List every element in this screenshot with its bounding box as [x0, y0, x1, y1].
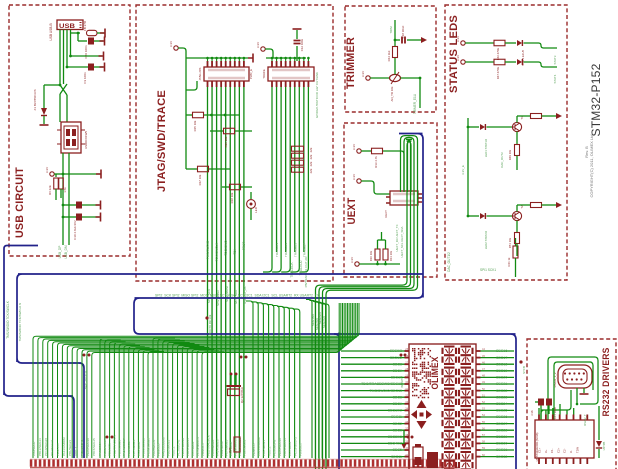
- svg-text:TRIM: TRIM: [389, 26, 393, 34]
- svg-text:SEG9: SEG9: [393, 369, 402, 373]
- wire led1: [465, 42, 494, 44]
- svg-text:USBDF01W5: USBDF01W5: [84, 131, 88, 149]
- svg-text:R17 10k: R17 10k: [198, 174, 202, 185]
- wire jtag top rail: [186, 57, 248, 59]
- svg-text:SEG0/2: SEG0/2: [390, 349, 402, 353]
- svg-text:SEG11: SEG11: [391, 415, 402, 419]
- wires uext bundle: [326, 136, 418, 469]
- svg-text:FB 27R: FB 27R: [83, 20, 87, 31]
- svg-text:USB CIRCUIT: USB CIRCUIT: [14, 167, 26, 238]
- svg-text:TMS/SWDIO/SEG13: TMS/SWDIO/SEG13: [370, 389, 403, 393]
- bus navy horizontal upper: [17, 274, 423, 458]
- svg-text:LED2 STAT2/2: LED2 STAT2/2: [484, 230, 488, 249]
- wire jtag pwr: [178, 48, 186, 110]
- wire jtag pwr down: [185, 110, 187, 169]
- capacitor C10: [63, 204, 76, 206]
- svg-text:SPI2_SCK SPI2_MISO SPI2_MOSI: SPI2_SCK SPI2_MISO SPI2_MOSI NSS2 SCT MI…: [155, 294, 320, 298]
- resistor R11: [385, 261, 387, 264]
- svg-text:R47 470E: R47 470E: [496, 67, 500, 80]
- svg-text:PE10/SEG39: PE10/SEG39: [278, 438, 282, 456]
- capacitor C12 top right: [296, 46, 298, 61]
- svg-text:SEG22: SEG22: [496, 389, 507, 393]
- connector UEXT body: [390, 191, 418, 205]
- resistor R49: [515, 145, 520, 156]
- svg-text:BOOT0 R9 10k: BOOT0 R9 10k: [208, 314, 212, 335]
- wires db9 loop3: [541, 390, 571, 420]
- wire trim: [370, 77, 389, 79]
- wire to led1: [505, 42, 516, 44]
- wire USB id: [66, 30, 68, 68]
- svg-text:R49 10k: R49 10k: [508, 149, 512, 160]
- svg-text:STAT4: STAT4: [553, 74, 557, 83]
- svg-text:DAC_OUT1/2: DAC_OUT1/2: [84, 370, 88, 389]
- wire trim right: [401, 77, 421, 79]
- svg-text:PE2/TRACECK: PE2/TRACECK: [113, 435, 117, 456]
- junction pair D: [106, 436, 109, 439]
- svg-text:PB6/I2C1: PB6/I2C1: [299, 443, 303, 456]
- svg-text:C3 100n: C3 100n: [83, 72, 87, 84]
- svg-text:TMS/SWDIO TCK/SWCLK N: TMS/SWDIO TCK/SWCLK N: [18, 303, 22, 342]
- svg-text:SPI1 SCK1: SPI1 SCK1: [480, 268, 496, 272]
- wires trace down: [263, 87, 272, 272]
- svg-text:T2IN: T2IN: [575, 447, 579, 453]
- svg-text:RS232_T: RS232_T: [583, 414, 587, 426]
- svg-text:R11 10k: R11 10k: [389, 250, 393, 261]
- led rs232: [596, 441, 602, 447]
- svg-text:PC13/WKUP2: PC13/WKUP2: [293, 437, 297, 456]
- svg-text:SEG30/2: SEG30/2: [388, 435, 402, 439]
- svg-text:TRACED3: TRACED3: [284, 243, 288, 257]
- svg-text:PB/TRACED1 OUT AN: PB/TRACED1 OUT AN: [304, 257, 308, 288]
- ferrite FB1: [87, 30, 98, 35]
- svg-text:V+: V+: [544, 449, 548, 453]
- resistor R48: [531, 114, 542, 119]
- resistor R16: [224, 128, 235, 134]
- resistor R17: [198, 166, 209, 172]
- ic U2 USBDF01W5: [61, 122, 81, 153]
- svg-text:R15 10k: R15 10k: [193, 120, 197, 131]
- svg-text:PB9/SEG9: PB9/SEG9: [127, 441, 131, 456]
- svg-text:TCK/SWCLK: TCK/SWCLK: [215, 242, 219, 261]
- wire D+ down: [59, 94, 61, 122]
- terminal 3.3V led1: [461, 41, 465, 45]
- wire cap branch: [77, 33, 79, 41]
- ground: [100, 63, 105, 72]
- svg-text:STM32-P152: STM32-P152: [591, 64, 603, 137]
- svg-text:UEXT: UEXT: [346, 197, 358, 224]
- wire emitter1: [516, 132, 518, 145]
- svg-text:STAT3: STAT3: [553, 55, 557, 64]
- terminal 3.3V trim: [366, 76, 370, 80]
- svg-text:PA14/SEG17: PA14/SEG17: [215, 438, 219, 456]
- svg-text:3.3V: 3.3V: [361, 71, 365, 77]
- svg-text:PB6/I2C1: PB6/I2C1: [108, 443, 112, 456]
- wire U2 down D-: [68, 153, 70, 245]
- svg-text:SEG23: SEG23: [496, 395, 507, 399]
- connector DB9: [558, 365, 592, 388]
- frame TRIMMER: [345, 6, 436, 112]
- wire to led2: [505, 61, 516, 63]
- mcu pin band: [30, 460, 33, 467]
- svg-text:1.5k: 1.5k: [63, 187, 67, 193]
- ground rs232: [583, 388, 585, 393]
- svg-text:SEG40/2: SEG40/2: [388, 442, 402, 446]
- svg-text:STATUS LEDS: STATUS LEDS: [448, 15, 460, 93]
- svg-text:Q2 32768Hz: Q2 32768Hz: [240, 386, 244, 403]
- svg-text:TRACED1: TRACED1: [275, 243, 279, 257]
- svg-text:PB15/SEG15: PB15/SEG15: [186, 438, 190, 456]
- ground jtag rail: [248, 54, 253, 63]
- svg-text:SEG5: SEG5: [393, 448, 402, 452]
- svg-text:C16: C16: [530, 410, 534, 415]
- terminal 3.3V uext3: [355, 262, 359, 266]
- svg-text:PE10/SEG39: PE10/SEG39: [86, 438, 90, 456]
- svg-text:TRIMER_E1U: TRIMER_E1U: [413, 93, 417, 114]
- svg-text:PD2/SEG31: PD2/SEG31: [50, 439, 54, 456]
- svg-text:AN_TR 10k: AN_TR 10k: [390, 86, 394, 101]
- svg-text:USB USB-B: USB USB-B: [49, 23, 53, 40]
- capacitor C11: [63, 216, 76, 218]
- wire led2 out: [524, 62, 558, 67]
- transistor T2: [512, 211, 521, 220]
- wire to base2: [487, 215, 513, 217]
- svg-text:SEG8: SEG8: [393, 362, 402, 366]
- arrow out1: [556, 113, 562, 119]
- lcd bar symbol: [427, 452, 438, 468]
- wire trim down: [419, 78, 421, 108]
- svg-text:R13 4.7k: R13 4.7k: [374, 156, 378, 168]
- svg-text:22E: 22E: [309, 161, 313, 166]
- svg-text:3.3V: 3.3V: [256, 42, 260, 48]
- svg-text:JTAG/SWD/TRACE: JTAG/SWD/TRACE: [156, 90, 168, 192]
- svg-text:PB15/SEG15: PB15/SEG15: [283, 438, 287, 456]
- connector TRACE pins bottom: [271, 81, 273, 87]
- junction pair B: [240, 356, 243, 359]
- svg-text:PE8/LCD: PE8/LCD: [56, 443, 60, 456]
- wire collector1: [516, 116, 518, 123]
- resistor R51: [515, 233, 520, 244]
- wire jtag2 pwr: [265, 49, 273, 58]
- svg-text:PA7/SEG4: PA7/SEG4: [191, 441, 195, 456]
- terminal 3.3V jtag2: [261, 47, 265, 51]
- svg-text:3.3V_E: 3.3V_E: [461, 165, 465, 175]
- svg-text:PC7/SEG25: PC7/SEG25: [132, 439, 136, 456]
- wire R down: [55, 189, 57, 200]
- capacitor C3: [67, 66, 88, 68]
- connector TRACE body: [268, 67, 314, 81]
- capacitor C16: [535, 401, 538, 403]
- svg-text:PB1/SEG21: PB1/SEG21: [262, 439, 266, 456]
- svg-text:C2+: C2+: [556, 447, 560, 453]
- wire emitter2: [516, 221, 518, 233]
- connector USB: [57, 20, 83, 30]
- svg-text:USB_DM: USB_DM: [64, 245, 68, 259]
- ground: [96, 213, 101, 222]
- resistor R18: [230, 184, 241, 190]
- wire cap branch: [395, 39, 400, 41]
- svg-text:DAC_OUT1/2: DAC_OUT1/2: [447, 252, 451, 272]
- resistor R10: [377, 261, 379, 264]
- svg-text:SEG24: SEG24: [496, 402, 507, 406]
- svg-text:3.3V: 3.3V: [169, 41, 173, 47]
- wire D- down: [66, 95, 68, 122]
- resistor R6 22E: [55, 174, 57, 177]
- ground: [100, 37, 105, 46]
- svg-text:22E: 22E: [309, 147, 313, 152]
- capacitor C17: [546, 399, 552, 406]
- svg-text:R44 3k3: R44 3k3: [387, 50, 391, 61]
- junction pair E: [407, 436, 410, 439]
- svg-text:PD2/SEG31: PD2/SEG31: [152, 439, 156, 456]
- svg-text:3.3V: 3.3V: [456, 55, 460, 61]
- ic pins bottom: [538, 458, 540, 464]
- led STAT1: [468, 126, 479, 128]
- wire led2: [465, 61, 494, 63]
- svg-text:R21 1k: R21 1k: [507, 257, 511, 266]
- svg-text:PA11/USBDM: PA11/USBDM: [162, 437, 166, 456]
- resistor R44: [393, 47, 398, 58]
- svg-text:Z1 BZX55C3V6: Z1 BZX55C3V6: [33, 89, 37, 110]
- junction boot0: [205, 316, 208, 319]
- ground: [96, 170, 101, 179]
- led STAT2: [468, 215, 479, 217]
- svg-text:PB13/SEG13: PB13/SEG13: [38, 438, 42, 456]
- svg-text:USB_DP: USB_DP: [58, 246, 62, 259]
- lcd battery: [413, 447, 423, 467]
- svg-text:R16 10k: R16 10k: [224, 136, 228, 147]
- resistor R21 buzzer: [515, 238, 517, 246]
- lcd dither logo: [412, 348, 414, 350]
- svg-text:SEG27: SEG27: [496, 422, 507, 426]
- ic pins top: [538, 415, 540, 421]
- svg-text:3.3V: 3.3V: [456, 36, 460, 42]
- wire uext r13: [361, 150, 371, 152]
- svg-text:PB1/SEG21: PB1/SEG21: [167, 439, 171, 456]
- svg-text:PB1/SEG21: PB1/SEG21: [68, 439, 72, 456]
- svg-text:R10 10k: R10 10k: [369, 250, 373, 261]
- resistor pack R19-R22: [292, 146, 304, 151]
- svg-text:UEXT_SCL UEXT_SDA: UEXT_SCL UEXT_SDA: [400, 226, 404, 257]
- svg-text:PC10/SEG28: PC10/SEG28: [146, 438, 150, 456]
- svg-text:SEG1/2: SEG1/2: [390, 356, 402, 360]
- wire trim up: [394, 58, 396, 74]
- svg-text:PE8/LCD: PE8/LCD: [252, 443, 256, 456]
- wire USB D-: [63, 30, 65, 85]
- svg-text:SEG9: SEG9: [393, 402, 402, 406]
- junction pair A: [83, 354, 86, 357]
- wire pullup row: [63, 173, 100, 175]
- wire jtag left pin: [186, 81, 197, 90]
- bus navy uext loop: [134, 134, 516, 469]
- svg-text:C10 4.7uF/16V: C10 4.7uF/16V: [73, 220, 77, 240]
- svg-text:TRACED7: TRACED7: [302, 243, 306, 257]
- svg-text:STFB: STFB: [522, 366, 526, 374]
- svg-text:PD2/SEG31: PD2/SEG31: [243, 439, 247, 456]
- wire USB D+: [59, 30, 61, 86]
- capacitor C20: [88, 38, 94, 45]
- diode Z1: [41, 108, 47, 115]
- svg-text:PD8/SEG28: PD8/SEG28: [117, 439, 121, 456]
- bus navy lcd branch: [334, 334, 339, 469]
- svg-text:PE10/SEG39: PE10/SEG39: [181, 438, 185, 456]
- lcd pins left: [405, 350, 410, 352]
- svg-text:SEG11: SEG11: [391, 455, 402, 459]
- svg-text:SEG31: SEG31: [496, 448, 507, 452]
- terminal 3.3V uext1: [357, 149, 361, 153]
- wire shield: [70, 33, 72, 56]
- connector JTAG pins bottom: [207, 81, 209, 87]
- resistor R25: [234, 437, 240, 452]
- terminal 3.3V uext2: [357, 179, 361, 183]
- svg-text:TRIMMER: TRIMMER: [345, 37, 357, 89]
- svg-text:TMS/SWDIO TCK/SWCLK: TMS/SWDIO TCK/SWCLK: [6, 300, 10, 339]
- svg-text:C1-: C1-: [550, 448, 554, 453]
- svg-text:PE2/TRACECK: PE2/TRACECK: [206, 435, 210, 456]
- svg-text:LED1 STAT1/2: LED1 STAT1/2: [484, 138, 488, 157]
- svg-text:PC3/SEG43: PC3/SEG43: [176, 439, 180, 456]
- svg-text:COPYRIGHT(C) 2011, OLIMEX Ltd: COPYRIGHT(C) 2011, OLIMEX Ltd: [589, 134, 594, 197]
- bus navy USB exit: [4, 246, 38, 251]
- frame UEXT: [344, 123, 437, 277]
- svg-text:TRST: TRST: [242, 242, 246, 250]
- wire uext bottom: [359, 263, 400, 265]
- svg-text:VDD_1: VDD_1: [74, 446, 78, 456]
- svg-text:PC13/WKUP2: PC13/WKUP2: [103, 437, 107, 456]
- wire row: [71, 55, 103, 57]
- connector JTAG pins top: [207, 58, 209, 67]
- wire 3.3V: [54, 173, 63, 175]
- svg-text:PE8/LCD: PE8/LCD: [157, 443, 161, 456]
- wire to ground: [97, 32, 104, 34]
- svg-text:PC10/SEG28: PC10/SEG28: [44, 438, 48, 456]
- wires ic top: [559, 404, 561, 415]
- lcd segment digits: [443, 347, 457, 364]
- svg-text:JTAG 20S: JTAG 20S: [198, 68, 202, 81]
- trimmer AN_TR: [390, 74, 401, 81]
- wire jtag2 rail: [266, 57, 306, 59]
- wire to base1: [487, 126, 513, 128]
- ground: [96, 201, 101, 210]
- connector TRACE pins top: [271, 58, 273, 67]
- terminal 3.3V: [50, 172, 54, 176]
- lcd pins right: [476, 350, 481, 352]
- svg-text:TRACECK: TRACECK: [290, 262, 294, 278]
- svg-text:PA0/SEG0: PA0/SEG0: [137, 441, 141, 456]
- transistor T1: [512, 122, 521, 131]
- svg-text:3.3V: 3.3V: [352, 144, 356, 150]
- svg-text:SEG21: SEG21: [496, 382, 507, 386]
- svg-text:TRACED5: TRACED5: [293, 243, 297, 257]
- arrow out2: [556, 202, 562, 208]
- resistor R13: [372, 148, 383, 154]
- svg-text:SEG20: SEG20: [496, 376, 507, 380]
- svg-text:LED: LED: [254, 207, 258, 213]
- wire status rail: [467, 118, 469, 216]
- svg-text:SEG17: SEG17: [496, 356, 507, 360]
- svg-text:RS232 DRIVERS: RS232 DRIVERS: [601, 348, 612, 417]
- svg-text:SEG16: SEG16: [496, 349, 507, 353]
- svg-text:22E: 22E: [309, 168, 313, 173]
- ground: [99, 52, 104, 61]
- svg-text:PC13/WKUP2: PC13/WKUP2: [196, 437, 200, 456]
- svg-text:SEG19: SEG19: [496, 369, 507, 373]
- svg-text:SEG2: SEG2: [393, 422, 402, 426]
- svg-text:3.3V: 3.3V: [45, 167, 49, 173]
- svg-text:SEG26: SEG26: [496, 415, 507, 419]
- wire band group2: [100, 339, 116, 458]
- svg-text:R6 22E: R6 22E: [48, 185, 52, 195]
- svg-text:C12 100n: C12 100n: [300, 38, 304, 51]
- svg-text:R46 470E: R46 470E: [496, 48, 500, 61]
- svg-text:TDI: TDI: [233, 249, 237, 254]
- svg-text:PA7/SEG4: PA7/SEG4: [288, 441, 292, 456]
- svg-text:V-: V-: [569, 450, 573, 453]
- svg-text:UEXT_RX UEXT_TX: UEXT_RX UEXT_TX: [395, 224, 399, 251]
- svg-text:TDO/TRACESWO/SEG12: TDO/TRACESWO/SEG12: [361, 382, 402, 386]
- wire rs232 right: [598, 406, 600, 440]
- ic MAX3232 body: [535, 420, 594, 458]
- svg-text:PA11/USBDM: PA11/USBDM: [257, 437, 261, 456]
- svg-text:PB9/SEG9: PB9/SEG9: [220, 441, 224, 456]
- svg-text:PA0/SEG0: PA0/SEG0: [32, 441, 36, 456]
- lcd body: [409, 344, 476, 469]
- diode D3: [250, 192, 252, 199]
- svg-text:R25: R25: [228, 447, 232, 453]
- arrow terminal: [421, 37, 427, 43]
- wires db9 loop2: [554, 362, 593, 420]
- svg-text:TMS/SWDIO: TMS/SWDIO: [206, 240, 210, 259]
- wire r13 to conn: [383, 151, 404, 191]
- svg-text:PA11/USBDM: PA11/USBDM: [62, 437, 66, 456]
- svg-text:PB15/SEG15: PB15/SEG15: [92, 438, 96, 456]
- svg-text:SEG10: SEG10: [391, 376, 402, 380]
- frame USB CIRCUIT: [9, 5, 130, 256]
- terminal 3.3V jtag1: [174, 46, 178, 50]
- svg-text:SEG30: SEG30: [496, 442, 507, 446]
- arrow down bottom: [401, 443, 407, 449]
- bus navy from usb: [4, 250, 74, 458]
- wire caps: [540, 406, 542, 421]
- wire fan horizontal band: [33, 303, 359, 458]
- svg-text:PC3/SEG43: PC3/SEG43: [80, 439, 84, 456]
- svg-text:PWR_E: PWR_E: [249, 69, 253, 79]
- svg-text:PA14/SEG17: PA14/SEG17: [122, 438, 126, 456]
- svg-text:TRACE: TRACE: [262, 69, 266, 79]
- svg-text:SEG32: SEG32: [496, 455, 507, 459]
- svg-text:OLIMEX: OLIMEX: [430, 356, 441, 389]
- connector JTAG body: [204, 67, 249, 81]
- svg-text:TDO/SWO: TDO/SWO: [224, 240, 228, 256]
- wire Z1 gnd: [43, 116, 45, 124]
- svg-text:UEXT: UEXT: [384, 210, 388, 218]
- wires db9 loop1: [548, 357, 598, 420]
- svg-text:R18 10k: R18 10k: [230, 192, 234, 203]
- wire uext2: [361, 181, 390, 194]
- svg-text:PA7/SEG4: PA7/SEG4: [98, 441, 102, 456]
- svg-text:VDD_1: VDD_1: [267, 446, 271, 456]
- led STAT4: [517, 59, 522, 65]
- resistor R47: [494, 59, 505, 65]
- svg-text:22E: 22E: [309, 154, 313, 159]
- junction stat: [519, 360, 522, 363]
- svg-text:SEG3: SEG3: [393, 428, 402, 432]
- wire db9 pin: [576, 388, 578, 404]
- svg-text:PB6/I2C1: PB6/I2C1: [201, 443, 205, 456]
- svg-text:R51 10k: R51 10k: [508, 237, 512, 248]
- frame JTAG/SWD/TRACE: [136, 5, 333, 281]
- svg-text:SEG25: SEG25: [496, 409, 507, 413]
- led STAT3: [517, 40, 522, 46]
